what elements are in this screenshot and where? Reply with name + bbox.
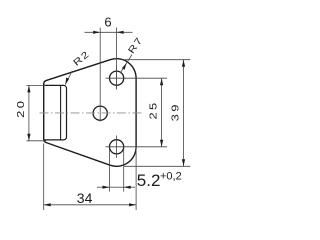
svg-text:R7: R7	[126, 35, 145, 56]
top hole vertical centerline	[116, 67, 118, 90]
hole bottom	[110, 140, 124, 154]
dim 5.2: left tangent extension line	[109, 148, 111, 192]
dim 6: right arrow	[117, 31, 124, 34]
R2 leader arrowhead	[65, 78, 69, 85]
dim 20: bottom extension line	[27, 140, 47, 142]
dim 25: up arrow	[160, 78, 163, 85]
svg-text:39: 39	[170, 102, 181, 121]
dim 6: extension line left (through middle hole)	[99, 28, 101, 122]
dim 5.2: left arrow	[103, 186, 110, 189]
dim 5.2: dimension line	[97, 186, 110, 188]
dim 39: top extension line	[122, 59, 191, 61]
main horizontal centerline	[40, 112, 144, 114]
svg-text:34: 34	[77, 190, 93, 206]
left edge extension line down to 34 dim	[43, 144, 45, 211]
top hole horizontal centerline / ext for 25	[106, 77, 168, 79]
right edge extension line down to 34 dim	[135, 147, 137, 210]
svg-text:6: 6	[104, 15, 111, 30]
dim 6: dimension line	[85, 31, 133, 33]
dim 39: bottom extension line	[124, 165, 190, 167]
dim 34: dimension line	[44, 204, 136, 206]
inner bend line	[60, 85, 62, 139]
dim 5.2: right tangent extension line	[123, 148, 125, 192]
dim 20: dimension line	[28, 85, 30, 140]
dim 6: left arrow	[93, 31, 100, 34]
hole top	[110, 71, 124, 85]
dim 39: dimension line	[183, 60, 185, 167]
dim 39: up arrow	[182, 60, 185, 67]
svg-text:5.2: 5.2	[137, 171, 161, 190]
dim 5.2: right arrow	[124, 186, 131, 189]
dim 20: down arrow	[27, 134, 30, 141]
bottom hole horizontal centerline / ext for 25	[106, 146, 168, 148]
part outline	[44, 59, 136, 167]
dim 20: top extension line	[27, 84, 47, 86]
svg-text:+0,2: +0,2	[160, 171, 182, 183]
R7 leader arrowhead	[122, 63, 127, 70]
hole middle	[93, 106, 107, 120]
svg-text:R2: R2	[71, 49, 92, 69]
R2 leader line	[65, 71, 72, 85]
dim 34: left arrow	[44, 203, 51, 206]
svg-text:25: 25	[148, 100, 159, 119]
dim 39: down arrow	[182, 159, 185, 166]
bend (fold) contour of left flange	[44, 85, 67, 139]
dim 20: up arrow	[27, 85, 30, 92]
bottom hole vertical centerline	[116, 136, 118, 159]
dim 6: extension line right (through top hole)	[116, 28, 118, 90]
dim 25: down arrow	[160, 140, 163, 147]
svg-text:20: 20	[15, 99, 26, 118]
dim 34: right arrow	[129, 203, 136, 206]
dim 25: dimension line	[161, 78, 163, 147]
R7 leader line	[120, 55, 132, 74]
